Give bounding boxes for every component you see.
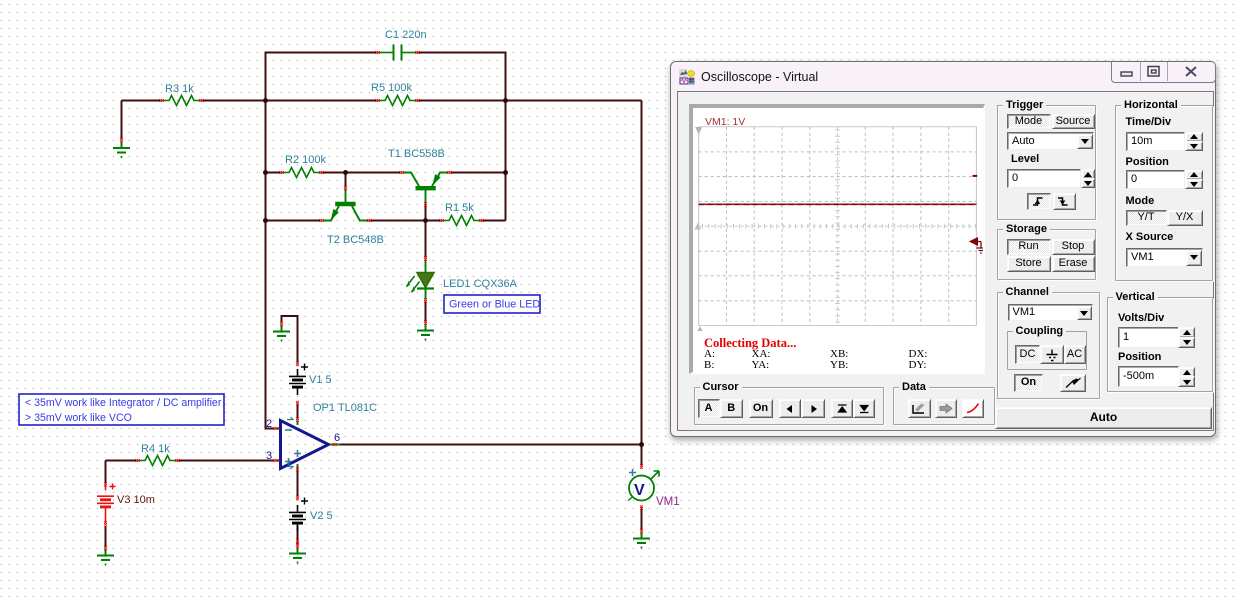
svg-text:V1 5: V1 5 bbox=[309, 374, 332, 386]
wire: op-amp V- pin to V2 bbox=[297, 468, 299, 545]
note box: integrator/VCO annotation bbox=[19, 394, 224, 425]
battery V1 5 bbox=[289, 362, 332, 405]
trigger level mark bbox=[973, 175, 978, 177]
svg-text:VM1: 1V: VM1: 1V bbox=[705, 116, 745, 128]
wire: pin3 input row y=460.5 bbox=[106, 460, 275, 462]
wire: right branch vertical x=505.5 bbox=[505, 53, 507, 221]
svg-text:B:: B: bbox=[704, 359, 714, 371]
battery V2 5 bbox=[289, 496, 333, 543]
svg-text:VM1: VM1 bbox=[656, 496, 680, 508]
Vertical group bbox=[1107, 297, 1213, 392]
wire: main horizontal rail y=100 from R3 to output corner bbox=[122, 100, 642, 102]
svg-text:YA:: YA: bbox=[752, 359, 770, 371]
caption buttons bbox=[1111, 61, 1216, 83]
svg-text:R2 100k: R2 100k bbox=[285, 154, 326, 166]
scope display panel bbox=[689, 104, 985, 374]
junction (265.5,172.5) bbox=[263, 170, 268, 175]
center axes with ticks bbox=[699, 127, 977, 326]
window icon bbox=[679, 69, 695, 85]
OSCILLOSCOPE WINDOW bbox=[670, 61, 1216, 437]
svg-text:< 35mV work like Integrator /: < 35mV work like Integrator / DC amplifi… bbox=[25, 397, 222, 409]
svg-text:R3 1k: R3 1k bbox=[165, 83, 194, 95]
svg-text:V2 5: V2 5 bbox=[310, 510, 333, 522]
junction output node (641.5,444.5) bbox=[639, 442, 644, 447]
wire: R2 row y=172.5 bbox=[266, 172, 506, 174]
svg-text:6: 6 bbox=[334, 432, 340, 444]
wire: LED branch down from node C bbox=[425, 221, 427, 323]
battery V3 10m (red) bbox=[97, 482, 155, 525]
resistor R4 bbox=[135, 443, 179, 466]
svg-text:LED1 CQX36A: LED1 CQX36A bbox=[443, 278, 518, 290]
svg-text:DY:: DY: bbox=[909, 359, 927, 371]
wire: node A vertical x=265.5 down to op-amp pin2 corner bbox=[266, 101, 275, 429]
wire: op-amp output to output column bbox=[340, 444, 642, 446]
svg-text:R1 5k: R1 5k bbox=[445, 202, 474, 214]
svg-text:V: V bbox=[634, 482, 645, 499]
svg-text:Collecting Data...: Collecting Data... bbox=[704, 336, 796, 350]
wire: V1 ground link and V1 column bbox=[282, 316, 298, 362]
wire: left ground drop below R3 bbox=[121, 101, 123, 140]
svg-text:C1 220n: C1 220n bbox=[385, 29, 427, 41]
svg-text:R5 100k: R5 100k bbox=[371, 82, 412, 94]
gray axis triangles bbox=[695, 127, 702, 135]
wire: top C1 branch from node A up across to right branch bbox=[266, 53, 506, 101]
svg-text:R4 1k: R4 1k bbox=[141, 443, 170, 455]
ground (below VM1) bbox=[633, 529, 650, 548]
junction node B (345.5,172.5) bbox=[343, 170, 348, 175]
resistor R3 bbox=[159, 83, 203, 106]
Trigger group bbox=[997, 105, 1096, 220]
svg-text:3: 3 bbox=[266, 450, 272, 462]
Channel group bbox=[997, 292, 1100, 399]
Data group bbox=[893, 387, 995, 425]
svg-text:> 35mV work like VCO: > 35mV work like VCO bbox=[25, 412, 132, 424]
svg-text:T2 BC548B: T2 BC548B bbox=[327, 234, 384, 246]
wire: V3 column x=105.5 bbox=[105, 461, 107, 548]
trigger position marker bbox=[970, 238, 985, 253]
junction node A (265.5,100.5) bbox=[263, 98, 268, 103]
svg-text:Green or Blue LED: Green or Blue LED bbox=[449, 299, 540, 311]
plot frame bbox=[699, 127, 977, 326]
ground (below R3) bbox=[113, 138, 130, 157]
ground (below V3) bbox=[97, 546, 114, 565]
voltmeter VM1 bbox=[628, 464, 680, 509]
Storage group bbox=[997, 229, 1096, 280]
ground (below V2) bbox=[289, 544, 306, 563]
resistor R2 bbox=[279, 154, 326, 178]
note box: Green or Blue LED bbox=[444, 295, 540, 313]
junction (505.5,100.5) bbox=[503, 98, 508, 103]
wire: output column x=641.5 from top rail down to voltmeter and ground bbox=[641, 101, 643, 531]
svg-text:YB:: YB: bbox=[830, 359, 848, 371]
wire: T2 base drop from node B bbox=[345, 173, 347, 187]
LED LED1 CQX36A bbox=[406, 256, 518, 302]
svg-text:V3 10m: V3 10m bbox=[117, 494, 155, 506]
Horizontal group bbox=[1115, 105, 1213, 281]
junction (505.5,172.5) bbox=[503, 170, 508, 175]
junction (265.5,220.5) bbox=[263, 218, 268, 223]
ground (V1 top) bbox=[273, 322, 290, 341]
resistor R1 bbox=[439, 202, 483, 226]
resistor R5 bbox=[371, 82, 420, 106]
capacitor C1 bbox=[375, 29, 426, 61]
ground (below LED1) bbox=[417, 320, 434, 339]
svg-text:2: 2 bbox=[266, 418, 272, 430]
op-amp OP1 TL081C bbox=[266, 402, 377, 471]
Cursor group bbox=[694, 387, 884, 425]
wire: T1 collector drop to LED node bbox=[425, 204, 427, 221]
wire: V1 to op-amp V+ pin bbox=[297, 404, 299, 419]
svg-text:OP1 TL081C: OP1 TL081C bbox=[313, 402, 377, 414]
junction node C (425.5,220.5) bbox=[423, 218, 428, 223]
trace VM1 bbox=[699, 203, 977, 205]
dashed gridlines bbox=[699, 127, 977, 326]
transistor T2 BC548B (NPN) bbox=[319, 186, 384, 246]
wire: T2/R1 row y=220.5 bbox=[266, 220, 506, 222]
Auto button bbox=[995, 407, 1212, 430]
svg-text:T1 BC558B: T1 BC558B bbox=[388, 148, 445, 160]
transistor T1 BC558B (PNP) bbox=[388, 148, 452, 207]
